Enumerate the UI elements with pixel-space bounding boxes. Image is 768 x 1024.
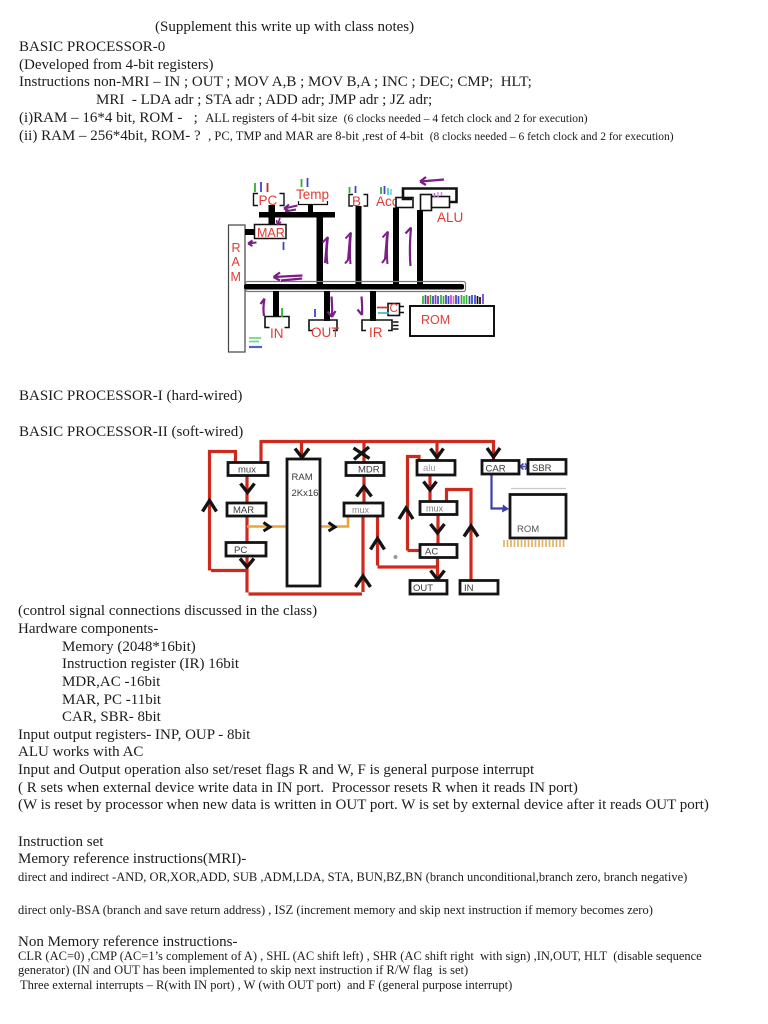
svg-text:PC: PC <box>234 545 247 556</box>
svg-text:ROM: ROM <box>421 313 450 327</box>
svg-text:IN: IN <box>464 583 474 594</box>
svg-text:mux: mux <box>238 465 256 476</box>
svg-text:M: M <box>231 270 241 284</box>
svg-text:OUT: OUT <box>311 325 340 340</box>
svg-text:A: A <box>232 255 241 269</box>
svg-text:MDR: MDR <box>358 465 380 476</box>
svg-text:ALU: ALU <box>437 210 463 225</box>
svg-text:MAR: MAR <box>257 226 285 240</box>
svg-text:2Kx16: 2Kx16 <box>292 488 319 499</box>
svg-text:OUT: OUT <box>413 583 433 594</box>
svg-text:IN: IN <box>270 326 284 341</box>
svg-text:ROM: ROM <box>517 524 539 535</box>
svg-text:SBR: SBR <box>532 463 552 474</box>
svg-text:R: R <box>232 241 241 255</box>
svg-text:AC: AC <box>425 547 438 558</box>
svg-text:CAR: CAR <box>486 464 506 475</box>
svg-text:alu: alu <box>423 463 436 474</box>
svg-text:RAM: RAM <box>292 472 313 483</box>
svg-text:C: C <box>390 303 398 315</box>
svg-text:Temp: Temp <box>296 187 329 202</box>
svg-text:MAR: MAR <box>233 505 254 516</box>
svg-text:IR: IR <box>369 325 383 340</box>
svg-text:mux: mux <box>352 505 370 515</box>
svg-text:mux: mux <box>426 504 444 514</box>
